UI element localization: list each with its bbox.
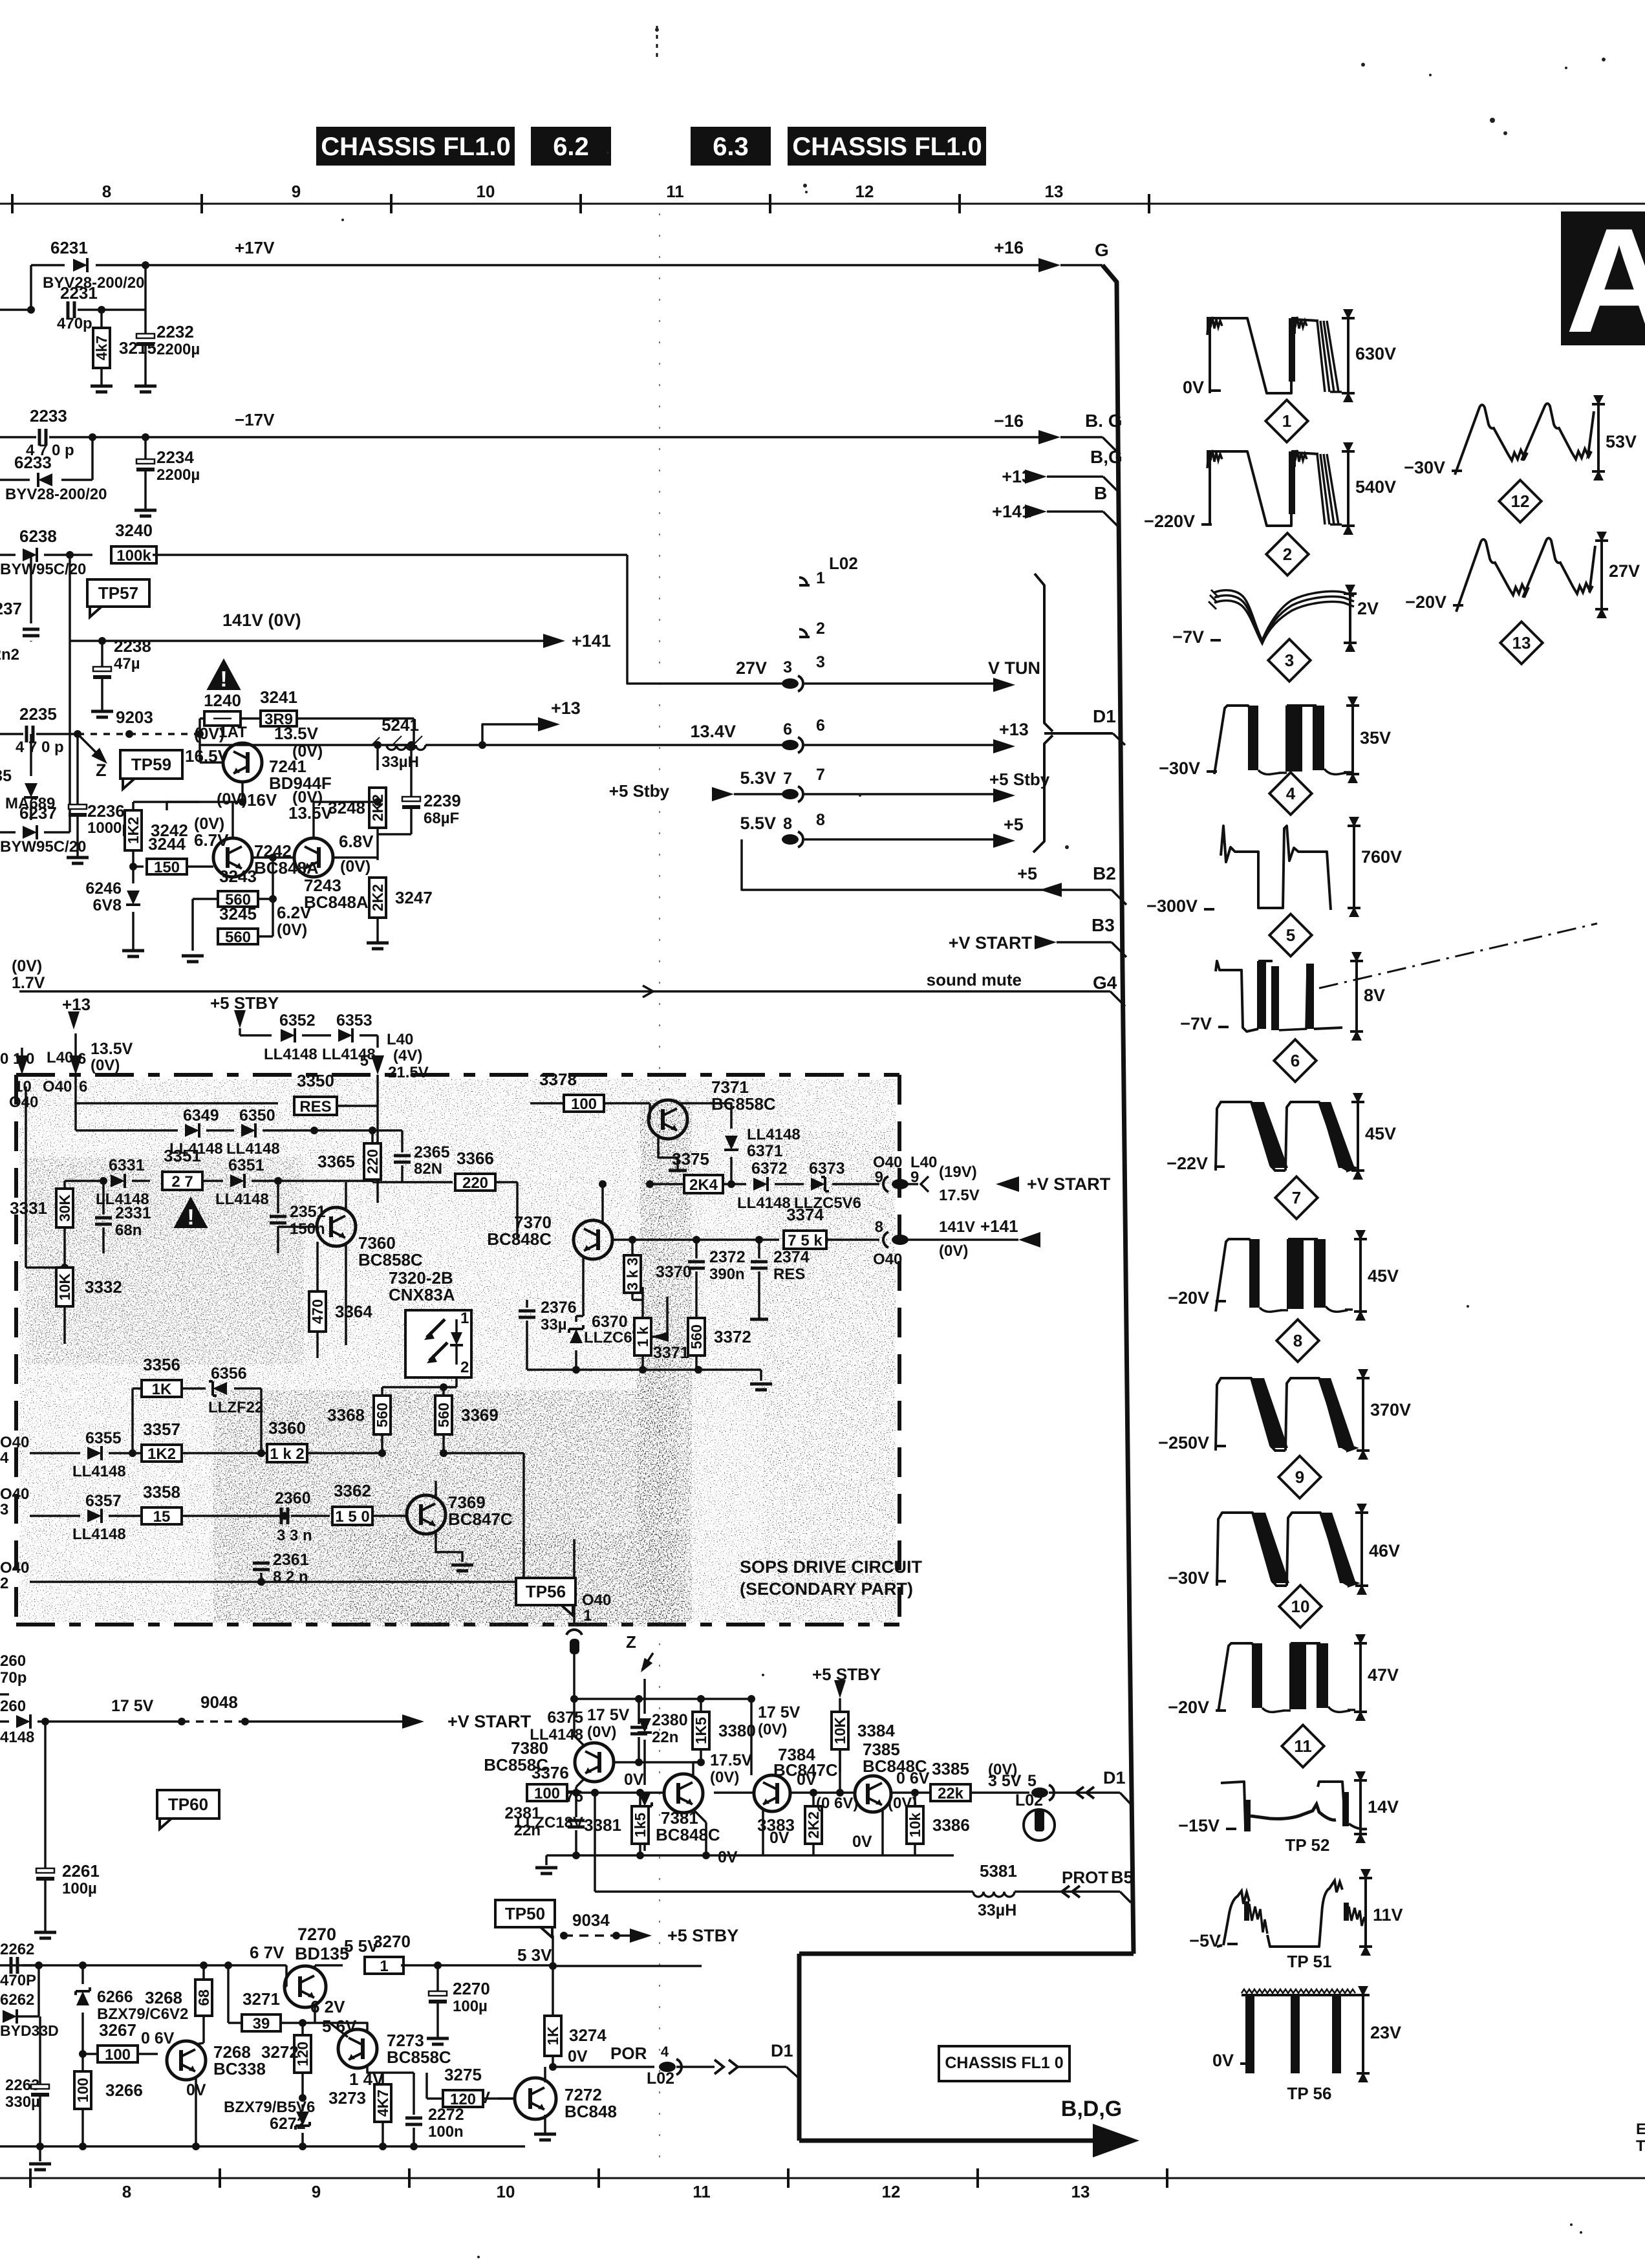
connector L02 pin 4 bbox=[659, 2062, 676, 2072]
svg-text:3 3 n: 3 3 n bbox=[277, 1527, 312, 1544]
svg-text:45V: 45V bbox=[1368, 1266, 1399, 1286]
svg-text:9034: 9034 bbox=[572, 1910, 610, 1930]
resistor 3360 1k2 bbox=[267, 1444, 307, 1462]
transistor 7242 BC848A bbox=[213, 838, 252, 877]
svg-text:−7V: −7V bbox=[1180, 1014, 1212, 1033]
svg-text:+V START: +V START bbox=[447, 1712, 532, 1731]
svg-text:+13: +13 bbox=[999, 720, 1029, 739]
svg-text:(0V): (0V) bbox=[277, 921, 307, 939]
svg-text:630V: 630V bbox=[1355, 344, 1396, 363]
resistor 3240 100k bbox=[70, 554, 92, 556]
svg-text:3365: 3365 bbox=[317, 1152, 355, 1171]
svg-text:1 k: 1 k bbox=[634, 1326, 651, 1347]
svg-text:RES: RES bbox=[299, 1098, 331, 1116]
resistor 3368 560 bbox=[374, 1396, 391, 1434]
svg-text:3268: 3268 bbox=[145, 1988, 182, 2007]
capacitor 2381 22n bbox=[575, 1793, 577, 1817]
resistor 3386 10k bbox=[907, 1806, 923, 1844]
connector pin 3 L02 bbox=[782, 678, 799, 689]
svg-text:(0V): (0V) bbox=[758, 1721, 787, 1738]
svg-text:(0V): (0V) bbox=[939, 1242, 968, 1260]
oscillogram 3 2V bbox=[1214, 590, 1354, 640]
wire O40-6 feed lines bbox=[74, 1075, 77, 1130]
svg-text:47V: 47V bbox=[1368, 1665, 1399, 1685]
resistor 3267 100 bbox=[79, 2050, 87, 2058]
svg-text:1: 1 bbox=[583, 1607, 592, 1625]
dirt scratch line bbox=[1319, 923, 1597, 988]
svg-text:0V: 0V bbox=[797, 1771, 817, 1789]
svg-text:6.2: 6.2 bbox=[553, 133, 589, 161]
svg-text:2233: 2233 bbox=[30, 406, 67, 426]
svg-text:SOPS DRIVE CIRCUIT: SOPS DRIVE CIRCUIT bbox=[740, 1557, 923, 1577]
svg-text:11V: 11V bbox=[1373, 1905, 1403, 1925]
svg-text:O40: O40 bbox=[9, 1094, 38, 1111]
svg-text:3273: 3273 bbox=[328, 2088, 366, 2108]
svg-text:3272: 3272 bbox=[261, 2042, 299, 2062]
scan noise texture inside SOPS box bbox=[19, 1079, 896, 1622]
wire 3370 resistor 3k3 bbox=[629, 1236, 636, 1244]
resistor 3381 1k5 bbox=[632, 1806, 649, 1844]
svg-text:3350: 3350 bbox=[297, 1071, 334, 1090]
wire emitter rail with ground bbox=[527, 1368, 761, 1371]
wire 17.5V rail over 7380 bbox=[574, 1698, 751, 1700]
svg-text:6 7V: 6 7V bbox=[250, 1943, 285, 1962]
svg-text:4K7: 4K7 bbox=[374, 2090, 391, 2117]
transistor 7380 BC858C bbox=[575, 1743, 614, 1782]
svg-text:BC338: BC338 bbox=[213, 2059, 266, 2079]
resistor 3245 560 bbox=[191, 899, 194, 936]
svg-text:6372: 6372 bbox=[751, 1160, 788, 1178]
svg-text:3368: 3368 bbox=[327, 1405, 365, 1425]
svg-text:370V: 370V bbox=[1370, 1400, 1411, 1420]
diode 6357 bbox=[87, 1509, 102, 1523]
svg-text:3243: 3243 bbox=[219, 867, 257, 886]
svg-text:8V: 8V bbox=[1364, 986, 1385, 1005]
title box CHASSIS FL1.0 right bbox=[788, 127, 986, 166]
svg-text:PROT: PROT bbox=[1062, 1868, 1108, 1887]
svg-text:100: 100 bbox=[571, 1096, 597, 1113]
box CHASSIS FL1 0 bbox=[939, 2046, 1070, 2081]
svg-text:2: 2 bbox=[1283, 545, 1292, 564]
svg-text:sound mute: sound mute bbox=[927, 970, 1022, 989]
svg-text:5 6V: 5 6V bbox=[322, 2016, 357, 2036]
svg-text:6.7V: 6.7V bbox=[194, 830, 229, 850]
svg-text:−22V: −22V bbox=[1167, 1154, 1208, 1173]
svg-text:B,G: B,G bbox=[1090, 447, 1123, 467]
svg-text:E: E bbox=[1636, 2121, 1645, 2138]
wire B2 +5 line bbox=[742, 839, 1112, 890]
title box 6.3 bbox=[691, 127, 771, 166]
svg-text:T: T bbox=[1636, 2137, 1645, 2155]
svg-text:100µ: 100µ bbox=[453, 1998, 488, 2015]
wire 7371 emitter to ground bbox=[658, 1137, 678, 1171]
svg-text:9203: 9203 bbox=[116, 707, 153, 727]
svg-text:3274: 3274 bbox=[569, 2025, 607, 2045]
svg-text:3351: 3351 bbox=[164, 1146, 201, 1165]
svg-text:3366: 3366 bbox=[457, 1149, 494, 1168]
wire to O40-1 pin bbox=[573, 1539, 575, 1582]
oscillogram 8 45V bbox=[1216, 1239, 1251, 1312]
svg-text:D1: D1 bbox=[1103, 1768, 1126, 1787]
capacitor 2235 470p bbox=[0, 733, 23, 735]
svg-text:+V START: +V START bbox=[949, 933, 1033, 953]
oscillogram 5 760V bbox=[1221, 826, 1331, 910]
svg-text:−7V: −7V bbox=[1172, 627, 1204, 647]
svg-text:(4V): (4V) bbox=[393, 1047, 422, 1064]
SOPS box dashed border bbox=[16, 1073, 899, 1077]
top grid ruler bbox=[0, 203, 1645, 205]
svg-text:8 2 n: 8 2 n bbox=[273, 1568, 308, 1586]
svg-text:L02: L02 bbox=[829, 554, 858, 573]
svg-text:6246: 6246 bbox=[85, 880, 122, 898]
diode 6372 LL4148 bbox=[753, 1177, 768, 1191]
svg-text:1K: 1K bbox=[544, 2026, 561, 2046]
marker diamond 10 bbox=[1279, 1585, 1321, 1627]
transistor 7385 BC848C bbox=[855, 1776, 891, 1812]
svg-text:1240: 1240 bbox=[204, 691, 241, 710]
svg-text:2 7: 2 7 bbox=[171, 1173, 193, 1191]
svg-text:3369: 3369 bbox=[461, 1405, 499, 1425]
svg-text:O40: O40 bbox=[0, 1559, 29, 1577]
svg-text:22k: 22k bbox=[938, 1785, 964, 1802]
resistor 3375 2K4 bbox=[650, 1183, 685, 1185]
diode 6351 bbox=[230, 1174, 244, 1188]
svg-text:BC848C: BC848C bbox=[656, 1825, 720, 1844]
wire +17V rail to +16 G bbox=[145, 264, 1040, 266]
svg-text:11: 11 bbox=[693, 2182, 711, 2201]
capacitor 2360 33n bbox=[281, 1512, 288, 1520]
svg-text:3271: 3271 bbox=[242, 1989, 280, 2009]
node corner B.G to bus bbox=[1102, 437, 1118, 453]
marker diamond 2 bbox=[1266, 533, 1308, 575]
test point TP56 flag bbox=[516, 1578, 575, 1615]
svg-text:3240: 3240 bbox=[115, 521, 153, 540]
oscillogram 9 370V bbox=[1216, 1378, 1285, 1451]
svg-text:6350: 6350 bbox=[239, 1107, 275, 1125]
transistor 7360 BC858C bbox=[317, 1207, 356, 1246]
main interconnect bus line to sheet A bbox=[1102, 265, 1134, 1954]
svg-text:TP50: TP50 bbox=[505, 1904, 545, 1923]
test point TP59 bbox=[120, 750, 182, 789]
svg-text:−17V: −17V bbox=[235, 410, 275, 429]
capacitor 2374 RES bbox=[755, 1236, 763, 1244]
svg-text:17.5V: 17.5V bbox=[939, 1187, 980, 1204]
wire 7369 emitter to ground bbox=[436, 1530, 462, 1562]
svg-text:9: 9 bbox=[292, 182, 301, 201]
svg-text:70p: 70p bbox=[0, 1669, 27, 1687]
svg-text:141V: 141V bbox=[939, 1218, 975, 1236]
svg-text:150: 150 bbox=[154, 859, 180, 876]
svg-text:6266: 6266 bbox=[97, 1988, 133, 2006]
svg-text:6357: 6357 bbox=[85, 1492, 122, 1510]
svg-text:(19V): (19V) bbox=[939, 1163, 977, 1181]
svg-text:1: 1 bbox=[380, 1958, 388, 1975]
svg-text:13.5V: 13.5V bbox=[91, 1040, 133, 1058]
svg-text:0V: 0V bbox=[624, 1771, 644, 1789]
warning triangle above fuse 1240 bbox=[206, 658, 241, 690]
svg-text:3 k 3: 3 k 3 bbox=[624, 1257, 641, 1290]
svg-text:3 5V: 3 5V bbox=[988, 1772, 1022, 1790]
svg-text:100µ: 100µ bbox=[62, 1880, 97, 1897]
svg-text:10: 10 bbox=[14, 1078, 32, 1096]
svg-text:(0V): (0V) bbox=[340, 858, 371, 876]
svg-text:2200µ: 2200µ bbox=[156, 341, 200, 358]
svg-text:4 7 0 p: 4 7 0 p bbox=[16, 739, 64, 756]
svg-text:2: 2 bbox=[460, 1359, 469, 1376]
transistor 7268 BC338 bbox=[167, 2041, 206, 2080]
svg-text:8: 8 bbox=[102, 182, 111, 201]
svg-text:4: 4 bbox=[0, 1449, 9, 1467]
wire 7369 collector up bbox=[435, 1481, 437, 1499]
svg-text:TP 51: TP 51 bbox=[1287, 1952, 1332, 1971]
resistor 3356 1K bbox=[142, 1380, 182, 1397]
svg-text:O40: O40 bbox=[873, 1251, 902, 1268]
wire POR line to D1 bbox=[549, 2063, 557, 2071]
svg-text:8: 8 bbox=[122, 2182, 131, 2201]
svg-text:2238: 2238 bbox=[114, 636, 151, 656]
wire row 6331 3351 6351 bbox=[65, 1180, 103, 1182]
svg-text:3: 3 bbox=[1285, 651, 1294, 670]
svg-text:−20V: −20V bbox=[1168, 1288, 1209, 1308]
sheet corner black box A bbox=[1561, 211, 1645, 345]
ground under 2261 bbox=[34, 1931, 56, 1934]
svg-text:BYW95C/20: BYW95C/20 bbox=[0, 561, 86, 578]
svg-text:3364: 3364 bbox=[335, 1302, 372, 1321]
svg-text:22n: 22n bbox=[514, 1822, 541, 1839]
capacitor 2351 150n bbox=[277, 1181, 279, 1213]
wire PROT line with 5381 33uH bbox=[591, 1789, 599, 1797]
svg-text:5: 5 bbox=[360, 1052, 369, 1070]
svg-text:10K: 10K bbox=[56, 1273, 73, 1301]
svg-text:68n: 68n bbox=[115, 1222, 142, 1239]
wire diode row 6349 6350 bbox=[76, 1129, 178, 1132]
capacitor 2239 68uF bbox=[410, 745, 413, 797]
svg-text:O40: O40 bbox=[582, 1592, 611, 1609]
svg-text:Z: Z bbox=[96, 761, 107, 780]
svg-text:7 5 k: 7 5 k bbox=[788, 1232, 822, 1249]
arrow Z bbox=[78, 734, 103, 760]
svg-text:3360: 3360 bbox=[268, 1418, 306, 1438]
svg-text:3332: 3332 bbox=[85, 1277, 122, 1297]
svg-text:−250V: −250V bbox=[1158, 1433, 1209, 1453]
svg-text:2380: 2380 bbox=[652, 1711, 688, 1729]
wire 5.3V node down bbox=[552, 1936, 554, 1966]
svg-text:3247: 3247 bbox=[395, 888, 433, 907]
svg-text:3266: 3266 bbox=[105, 2080, 143, 2100]
svg-text:L40: L40 bbox=[387, 1031, 413, 1048]
svg-text:+5 Stby: +5 Stby bbox=[609, 781, 670, 801]
svg-text:TP59: TP59 bbox=[131, 755, 171, 774]
transistor 7381 BC848C bbox=[664, 1774, 703, 1813]
svg-text:5: 5 bbox=[1286, 925, 1295, 945]
svg-text:5.5V: 5.5V bbox=[740, 814, 776, 833]
svg-text:!: ! bbox=[187, 1205, 194, 1229]
svg-text:2K2: 2K2 bbox=[369, 884, 386, 911]
wire 7360 emitter down bbox=[345, 1245, 347, 1345]
svg-text:LLZF22: LLZF22 bbox=[208, 1399, 263, 1416]
svg-text:3358: 3358 bbox=[143, 1482, 180, 1502]
svg-text:10: 10 bbox=[477, 182, 495, 201]
svg-text:6: 6 bbox=[816, 717, 825, 735]
resistor 3371 1k potentiometer bbox=[634, 1318, 651, 1355]
diode 6331 bbox=[111, 1174, 125, 1188]
svg-text:6352: 6352 bbox=[279, 1011, 316, 1030]
svg-text:2360: 2360 bbox=[275, 1489, 311, 1507]
svg-text:LL4148: LL4148 bbox=[747, 1126, 801, 1143]
marker diamond 8 bbox=[1276, 1319, 1318, 1361]
resistor 3351 27 bbox=[162, 1172, 202, 1190]
svg-text:1.7V: 1.7V bbox=[12, 974, 45, 992]
svg-text:7: 7 bbox=[816, 766, 825, 784]
wire 13.4V line to +13 bbox=[482, 744, 786, 746]
svg-text:3357: 3357 bbox=[143, 1420, 180, 1439]
svg-text:0 6V: 0 6V bbox=[141, 2029, 175, 2047]
svg-text:6: 6 bbox=[1291, 1051, 1300, 1070]
svg-text:68: 68 bbox=[195, 1989, 212, 2006]
svg-text:3381: 3381 bbox=[584, 1815, 621, 1835]
diode 6233 bbox=[89, 433, 96, 441]
svg-text:1K: 1K bbox=[152, 1381, 172, 1398]
svg-text:L02: L02 bbox=[1015, 1791, 1043, 1809]
svg-text:5.3V: 5.3V bbox=[740, 768, 776, 788]
svg-text:45V: 45V bbox=[1365, 1124, 1396, 1143]
marker diamond 9 bbox=[1278, 1456, 1320, 1498]
oscillogram TP51 11V bbox=[1217, 1891, 1249, 1947]
svg-text:2272: 2272 bbox=[428, 2106, 464, 2124]
ground under 2263 bbox=[39, 2146, 41, 2161]
svg-text:+13: +13 bbox=[62, 995, 91, 1014]
svg-text:470P: 470P bbox=[0, 1972, 36, 1989]
svg-text:5241: 5241 bbox=[382, 715, 419, 735]
wire 141V line to +141 bbox=[70, 640, 544, 642]
svg-text:3378: 3378 bbox=[539, 1070, 577, 1089]
resistor 3272 120 bbox=[294, 2035, 311, 2073]
svg-text:3372: 3372 bbox=[714, 1327, 751, 1346]
resistor 3271 39 bbox=[227, 1965, 230, 2023]
svg-text:TP56: TP56 bbox=[526, 1582, 566, 1601]
oscillogram 1 630V bbox=[1209, 322, 1211, 393]
svg-text:BC848: BC848 bbox=[564, 2102, 617, 2121]
wire 7370 collector to 3375 node bbox=[601, 1184, 604, 1222]
resistor 3364 470 bbox=[309, 1291, 326, 1332]
transistor 7369 BC847C bbox=[407, 1495, 446, 1534]
svg-text:3245: 3245 bbox=[219, 904, 257, 923]
resistor 3332 10K bbox=[61, 1264, 69, 1271]
svg-text:3356: 3356 bbox=[143, 1355, 180, 1374]
svg-text:3384: 3384 bbox=[857, 1721, 895, 1740]
svg-text:3371: 3371 bbox=[653, 1344, 689, 1362]
wire 27V line to V TUN connector bbox=[627, 555, 786, 684]
svg-text:−20V: −20V bbox=[1168, 1698, 1209, 1717]
resistor 3244 150 bbox=[133, 865, 144, 868]
svg-text:O40: O40 bbox=[0, 1485, 29, 1503]
wire 7381 emitter down bbox=[693, 1809, 706, 1822]
svg-text:(0 6V): (0 6V) bbox=[816, 1795, 858, 1812]
svg-text:O40: O40 bbox=[0, 1434, 29, 1451]
svg-text:6233: 6233 bbox=[14, 453, 52, 472]
wire 7371 collector to 6371 bbox=[678, 1103, 731, 1129]
marker diamond 3 bbox=[1268, 639, 1310, 681]
svg-text:D1: D1 bbox=[771, 2041, 793, 2060]
resistor 3358 15 bbox=[142, 1507, 182, 1524]
svg-text:0V: 0V bbox=[769, 1829, 790, 1847]
wire 7385 emitter bbox=[881, 1810, 884, 1855]
connector pin 6 bbox=[782, 740, 799, 750]
svg-text:(SECONDARY PART): (SECONDARY PART) bbox=[740, 1579, 913, 1599]
diode 6355 bbox=[87, 1446, 102, 1460]
svg-text:27V: 27V bbox=[1609, 561, 1640, 581]
capacitor 2231 470p bbox=[27, 306, 35, 314]
svg-text:100k: 100k bbox=[116, 547, 151, 565]
svg-text:+V START: +V START bbox=[1027, 1174, 1111, 1194]
marker diamond 7 bbox=[1275, 1176, 1317, 1218]
svg-text:LL4148: LL4148 bbox=[215, 1191, 269, 1208]
marker diamond 4 bbox=[1269, 772, 1311, 814]
svg-text:BYW95C/20: BYW95C/20 bbox=[0, 838, 86, 856]
svg-text:6353: 6353 bbox=[336, 1011, 372, 1030]
svg-text:−300V: −300V bbox=[1146, 896, 1198, 916]
capacitor 2234 2200u bbox=[144, 437, 147, 459]
svg-text:B: B bbox=[1094, 483, 1107, 503]
svg-text:5381: 5381 bbox=[980, 1861, 1017, 1881]
wires optocoupler to 3368 3369 bbox=[455, 1377, 458, 1387]
diode 6238 bbox=[0, 554, 16, 556]
title box 6.2 bbox=[531, 127, 611, 166]
svg-text:6V8: 6V8 bbox=[93, 896, 122, 914]
resistor 3384 10K bbox=[832, 1712, 848, 1749]
transistor 7243 BC848A bbox=[294, 838, 333, 877]
svg-text:22n: 22n bbox=[652, 1729, 678, 1746]
svg-text:BC848C: BC848C bbox=[487, 1229, 552, 1249]
svg-text:B5: B5 bbox=[1111, 1868, 1134, 1887]
svg-text:TP 52: TP 52 bbox=[1285, 1835, 1330, 1855]
svg-text:2235: 2235 bbox=[19, 704, 57, 724]
resistor 3266 100 bbox=[74, 2071, 91, 2109]
svg-text:6238: 6238 bbox=[19, 526, 57, 546]
svg-text:16V: 16V bbox=[247, 790, 277, 810]
wire 7273 emitter to 4K7 bbox=[367, 2066, 383, 2073]
resistor 3383 2K2 bbox=[805, 1806, 822, 1844]
svg-text:10: 10 bbox=[1291, 1597, 1310, 1616]
svg-text:100: 100 bbox=[534, 1785, 560, 1802]
svg-text:260: 260 bbox=[0, 1652, 26, 1670]
svg-text:8: 8 bbox=[816, 811, 825, 829]
warning triangle under 3351 bbox=[173, 1196, 208, 1228]
svg-text:3: 3 bbox=[816, 653, 825, 671]
svg-text:1K2: 1K2 bbox=[125, 817, 142, 844]
resistor 3247 2K2 bbox=[369, 878, 386, 918]
thick chassis return corner bbox=[799, 1952, 1134, 1956]
svg-text:TP60: TP60 bbox=[168, 1795, 208, 1814]
marker diamond 13 bbox=[1500, 621, 1542, 664]
svg-text:2232: 2232 bbox=[156, 322, 194, 341]
oscillogram 6 8V bbox=[1216, 961, 1258, 1031]
svg-text:6375: 6375 bbox=[547, 1709, 583, 1727]
svg-text:0 6V: 0 6V bbox=[896, 1769, 930, 1787]
svg-text:220: 220 bbox=[462, 1174, 488, 1192]
svg-text:2K4: 2K4 bbox=[689, 1176, 718, 1194]
svg-text:6262: 6262 bbox=[0, 1991, 34, 2009]
node 9048 dashed bbox=[178, 1718, 186, 1725]
svg-text:4k7: 4k7 bbox=[93, 336, 110, 360]
fuse 1240 1AT bbox=[199, 718, 201, 734]
diode 6371 LL4148 bbox=[724, 1136, 738, 1150]
svg-text:6331: 6331 bbox=[109, 1156, 145, 1174]
wire base rail 0V bbox=[572, 1789, 580, 1797]
svg-text:3241: 3241 bbox=[260, 687, 297, 707]
wire 7270 emitter to 3272 bbox=[314, 2003, 316, 2023]
bottom ground rail bbox=[0, 2145, 525, 2148]
